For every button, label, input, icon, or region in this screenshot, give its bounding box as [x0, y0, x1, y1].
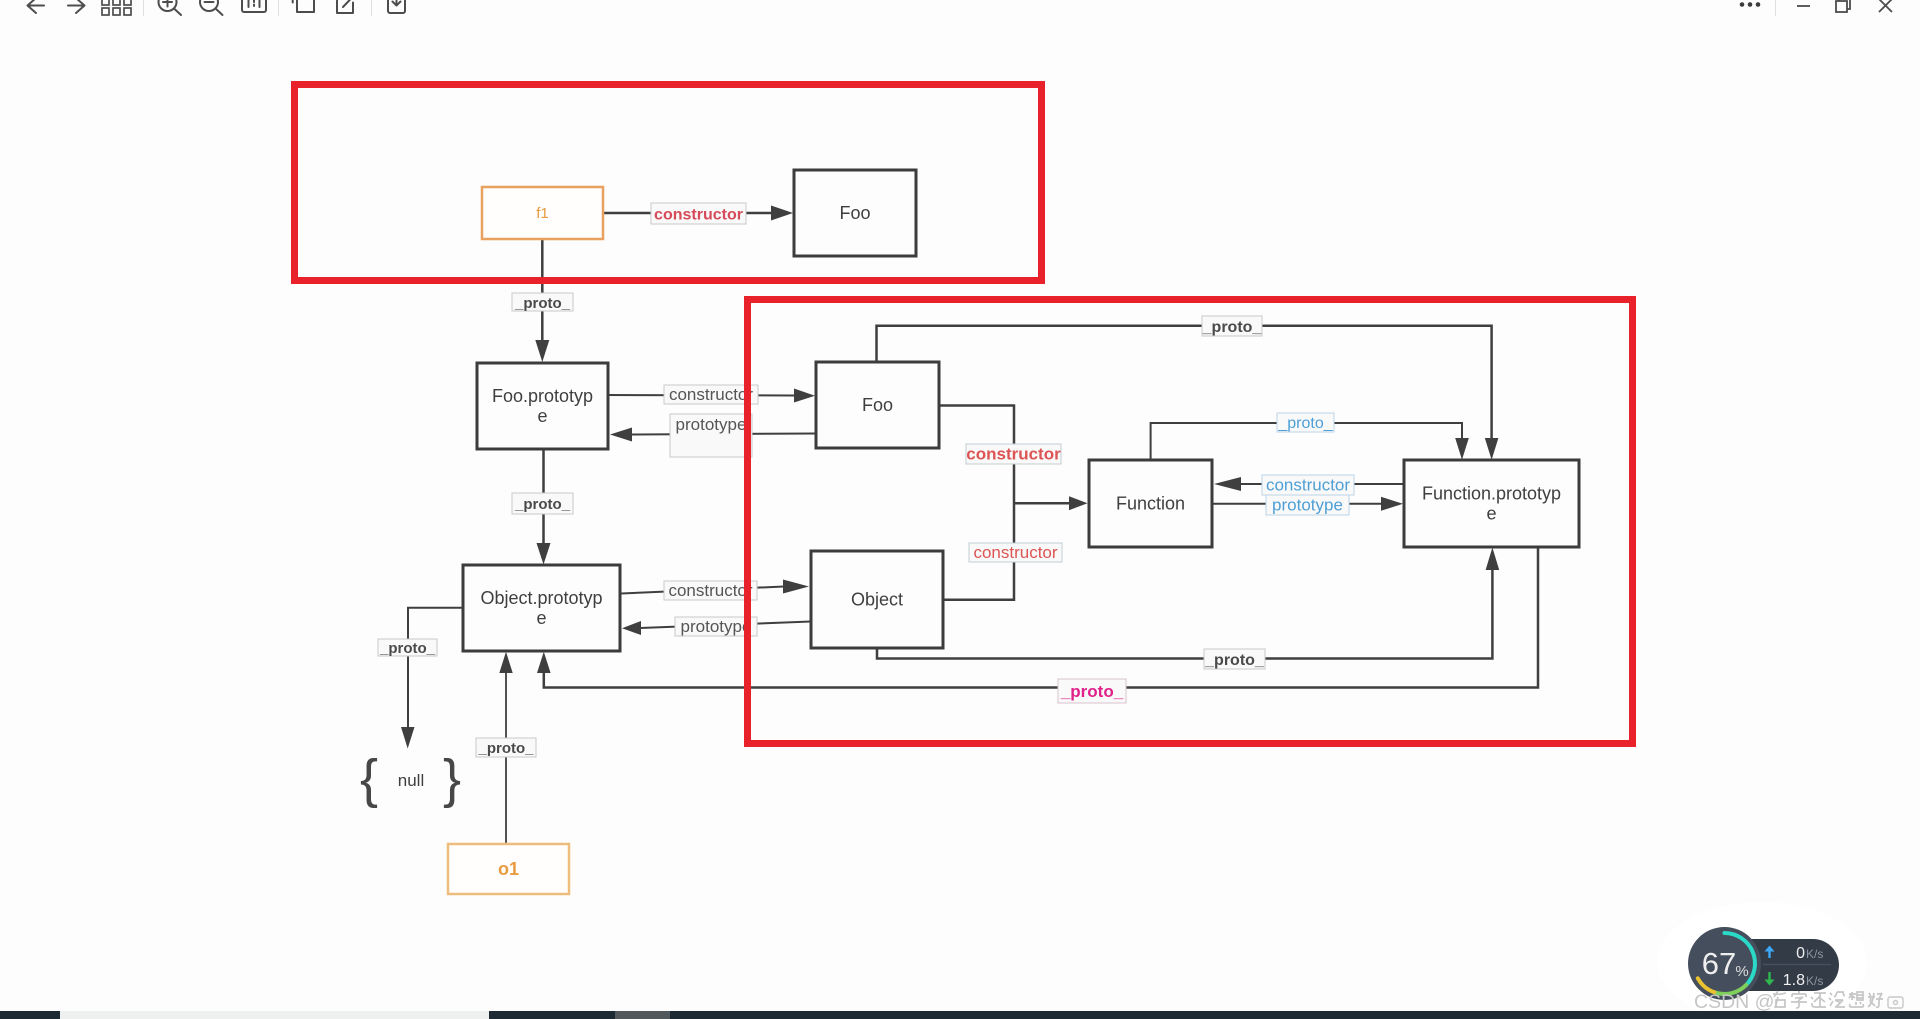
svg-text:67: 67	[1702, 946, 1736, 981]
svg-text:constructor: constructor	[966, 445, 1061, 464]
svg-text:Function.prototyp: Function.prototyp	[1422, 484, 1561, 504]
svg-text:Foo.prototyp: Foo.prototyp	[492, 386, 593, 406]
svg-text:e: e	[536, 608, 546, 628]
svg-text:constructor: constructor	[654, 207, 743, 224]
svg-text:f1: f1	[536, 205, 549, 222]
svg-text:_proto_: _proto_	[1204, 652, 1265, 669]
svg-text:e: e	[537, 406, 547, 426]
svg-text:_proto_: _proto_	[514, 496, 571, 513]
svg-text:0: 0	[1796, 945, 1805, 962]
svg-text:prototype: prototype	[1272, 496, 1343, 515]
svg-text:K/s: K/s	[1806, 974, 1823, 988]
svg-text:null: null	[398, 771, 424, 790]
svg-text:_proto_: _proto_	[514, 295, 571, 312]
svg-text:_proto_: _proto_	[1277, 415, 1333, 432]
svg-text:prototype: prototype	[681, 617, 752, 636]
svg-text:_proto_: _proto_	[379, 640, 436, 657]
svg-text:Function: Function	[1116, 494, 1185, 514]
svg-text:Object: Object	[851, 590, 903, 610]
svg-text:constructor: constructor	[973, 543, 1057, 562]
svg-text:constructor: constructor	[668, 581, 752, 600]
svg-text:_proto_: _proto_	[477, 740, 534, 757]
svg-text:e: e	[1486, 504, 1496, 524]
svg-text:_proto_: _proto_	[1202, 319, 1263, 336]
svg-text:CSDN @: CSDN @	[1694, 991, 1774, 1013]
svg-text:K/s: K/s	[1806, 947, 1823, 961]
svg-text:prototype: prototype	[676, 415, 747, 434]
svg-text:}: }	[443, 749, 461, 809]
svg-text:1.8: 1.8	[1783, 972, 1805, 989]
svg-text:Foo: Foo	[839, 203, 870, 223]
svg-text:o1: o1	[498, 859, 519, 879]
svg-text:{: {	[360, 749, 378, 809]
svg-text:Object.prototyp: Object.prototyp	[480, 588, 602, 608]
svg-text:constructor: constructor	[669, 385, 753, 404]
svg-text:%: %	[1735, 963, 1748, 980]
svg-text:constructor: constructor	[1266, 476, 1350, 495]
svg-text:_proto_: _proto_	[1060, 682, 1124, 701]
svg-text:Foo: Foo	[862, 395, 893, 415]
